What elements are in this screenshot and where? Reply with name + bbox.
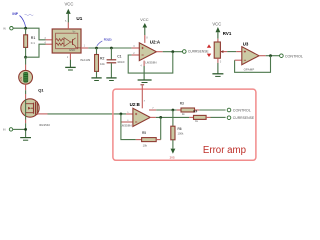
svg-text:CONTROL: CONTROL: [233, 109, 251, 113]
ground below U1: [65, 60, 76, 70]
wire to ground: [25, 123, 27, 137]
pin 8 of U2:A: [144, 35, 146, 43]
wire to U1 pin 4: [26, 44, 46, 57]
capacitor C1: [107, 48, 126, 78]
wire U1 output to U2:A: [88, 47, 131, 49]
potentiometer RV1: [207, 31, 232, 64]
ground below RV1: [212, 63, 223, 77]
terminal CURRSENSE (error amp): [227, 116, 255, 120]
output pin of U2:B: [150, 116, 156, 118]
svg-text:U2:B: U2:B: [130, 102, 140, 107]
svg-text:R4: R4: [193, 109, 197, 113]
terminal CURRSENSE: [183, 50, 210, 54]
terminal IN (top left): [3, 26, 13, 30]
op-amp U1 INA139: [52, 16, 90, 62]
resistor R6: [171, 110, 184, 149]
net label INP: [12, 12, 33, 27]
svg-text:CONTROL: CONTROL: [285, 55, 303, 59]
svg-text:0.1: 0.1: [31, 41, 35, 45]
svg-text:2V5: 2V5: [170, 156, 175, 160]
terminal CONTROL (error amp): [227, 108, 251, 112]
wire battery to Q1: [25, 90, 27, 94]
svg-text:IN: IN: [3, 26, 6, 30]
wire output to terminal: [163, 51, 183, 53]
net label R3(2): [97, 37, 112, 46]
wire U3 output: [266, 55, 280, 57]
svg-text:R1: R1: [31, 36, 36, 40]
wire R5 up to output node: [160, 117, 162, 139]
transistor Q1: [21, 88, 51, 127]
wire R3 to terminal: [199, 109, 225, 111]
node junction R6 top: [172, 109, 175, 112]
ground below Q1: [20, 138, 31, 141]
power VCC above RV1: [212, 22, 221, 39]
output pin of U3: [259, 55, 266, 57]
pin 1 of U1: [81, 47, 88, 49]
feedback wire through R5: [121, 114, 136, 140]
node junction R5 right: [159, 116, 162, 119]
svg-text:LM358N: LM358N: [120, 124, 131, 128]
svg-text:VCC: VCC: [140, 17, 148, 22]
svg-text:VCC: VCC: [212, 22, 221, 27]
svg-text:CURRSENSE: CURRSENSE: [188, 50, 210, 54]
source pin of Q1: [25, 120, 27, 124]
ground below C1: [106, 78, 116, 81]
svg-text:R3: R3: [180, 102, 184, 106]
svg-text:Error amp: Error amp: [203, 145, 246, 156]
svg-text:R6: R6: [178, 127, 182, 131]
svg-text:12V: 12V: [20, 76, 23, 81]
svg-text:RV1: RV1: [223, 31, 232, 36]
resistor R2: [95, 48, 106, 78]
wire output U2:B: [156, 116, 189, 118]
op-amp U2:A: [132, 39, 161, 64]
wire R4 to terminal: [211, 116, 226, 118]
resistor R3: [177, 102, 200, 116]
svg-text:100nF: 100nF: [117, 60, 125, 64]
svg-text:R3(2): R3(2): [104, 37, 112, 41]
pin 4 of U1: [46, 43, 53, 45]
svg-text:100k: 100k: [178, 132, 184, 136]
highlight box Error amp: [113, 89, 256, 160]
resistor R5: [136, 131, 161, 147]
pin 7 upper wire of U2:B: [149, 109, 156, 111]
node junction at + input of U2:B: [120, 113, 123, 116]
node junction output U2:A: [171, 50, 174, 53]
feedback wire U2:A: [128, 52, 173, 73]
svg-text:R2: R2: [100, 56, 104, 60]
svg-text:GND: GND: [69, 48, 75, 52]
svg-text:VCC: VCC: [65, 1, 74, 6]
svg-text:IN: IN: [3, 128, 6, 132]
svg-text:C1: C1: [117, 54, 121, 58]
svg-text:10k: 10k: [100, 62, 105, 66]
wire Q1 to error amp: [48, 113, 127, 115]
wire pin7 to R3: [156, 109, 176, 111]
pin 3 of U1: [46, 39, 53, 41]
svg-text:CURRSENSE: CURRSENSE: [233, 116, 255, 120]
pin 5 of U1: [67, 22, 69, 29]
ground below R2: [91, 78, 101, 81]
node junction R2: [95, 47, 98, 50]
node B junction below R1: [24, 56, 27, 59]
svg-text:Q1: Q1: [38, 88, 44, 93]
gate pin of Q1: [37, 113, 47, 115]
V+ stub of U2:B: [141, 85, 146, 109]
svg-text:OPAMP: OPAMP: [244, 67, 255, 71]
node junction C1: [110, 47, 113, 50]
svg-text:U2:A: U2:A: [150, 39, 161, 44]
wire input to junction: [13, 28, 45, 40]
op-amp U3: [235, 42, 259, 72]
node junction at Q1 source: [24, 128, 27, 131]
svg-text:R5: R5: [142, 131, 146, 135]
svg-text:U3: U3: [243, 42, 249, 47]
feedback wire U3: [235, 56, 271, 73]
pin 2 of U1: [69, 53, 71, 60]
power 2V5 arrow below R6: [170, 149, 176, 160]
power VCC above U1: [65, 1, 74, 22]
svg-text:IRL9540: IRL9540: [39, 123, 50, 127]
op-amp U2:B: [120, 102, 150, 128]
wire RV1 wiper to U3: [227, 51, 236, 53]
svg-text:10k: 10k: [143, 144, 148, 148]
svg-text:INP: INP: [12, 12, 18, 16]
svg-text:LM358N: LM358N: [145, 61, 156, 65]
resistor R4: [189, 109, 210, 123]
terminal CONTROL (U3 output): [280, 54, 303, 59]
node A junction: [24, 27, 27, 30]
battery BT1: [19, 57, 33, 90]
ground below U2:A: [138, 66, 152, 83]
pin 4 of U2:A: [143, 61, 145, 66]
terminal IN (bottom left): [3, 128, 26, 132]
node junction U3 output: [269, 54, 272, 57]
svg-text:INA139: INA139: [80, 58, 90, 62]
resistor R1: [24, 28, 36, 57]
output pin of U2:A: [156, 51, 162, 53]
power VCC above U2:A: [140, 17, 148, 35]
svg-text:U1: U1: [76, 16, 82, 21]
